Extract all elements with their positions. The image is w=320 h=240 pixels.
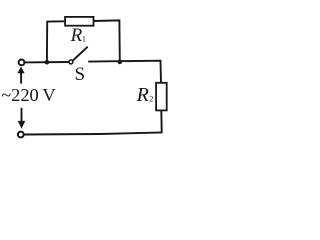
wire top-left L (left vertical of R1 branch + top wire left segment) — [47, 21, 66, 62]
wire middle right (switch to right rail) + right rail upper — [88, 61, 161, 83]
junction node B (right) — [118, 60, 123, 65]
terminal bottom (source) — [18, 132, 24, 138]
svg-text:~220 V: ~220 V — [1, 85, 56, 105]
svg-text:1: 1 — [82, 35, 86, 44]
arrow up to top terminal — [20, 72, 22, 84]
switch S blade — [73, 47, 87, 60]
wire top wire right segment + right vertical of R1 branch — [93, 20, 120, 62]
wire right rail lower + bottom wire — [24, 110, 162, 134]
resistor R2 — [156, 83, 167, 111]
junction node A (left) — [45, 60, 50, 65]
wire middle left (terminal to switch hinge) — [24, 61, 69, 63]
svg-text:S: S — [75, 64, 86, 85]
switch S hinge — [69, 60, 73, 64]
svg-text:2: 2 — [149, 95, 153, 104]
terminal top (source) — [19, 60, 25, 66]
arrow down to bottom terminal — [21, 108, 23, 122]
svg-text:R: R — [136, 84, 149, 106]
svg-text:R: R — [70, 25, 83, 46]
resistor R1 — [65, 17, 93, 26]
